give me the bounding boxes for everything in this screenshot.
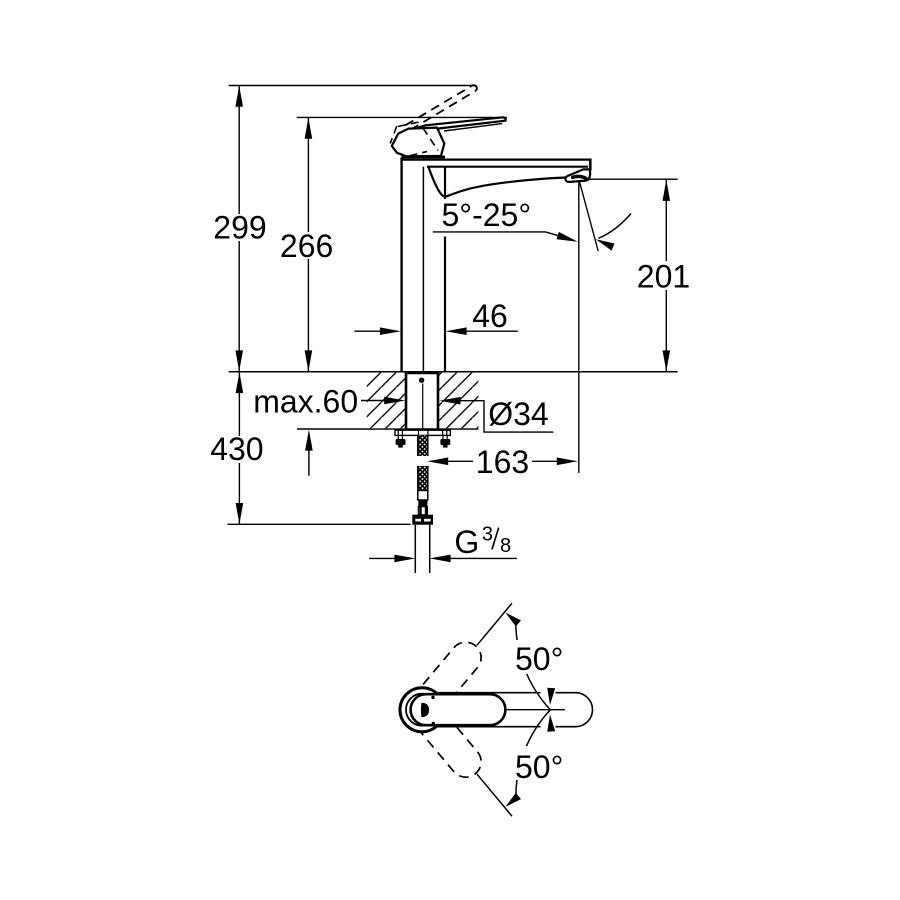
handle lever underside shadow line [444, 124, 502, 131]
spout plan outline [437, 693, 593, 727]
aerator [565, 169, 590, 182]
spout bar right end [589, 159, 592, 171]
dimension line 266 [277, 118, 337, 372]
svg-text:430: 430 [210, 431, 263, 467]
rotated handle position dashed (up 50°) [403, 636, 488, 728]
svg-text:266: 266 [280, 228, 333, 264]
spray angle arc arrow [596, 214, 631, 251]
svg-text:163: 163 [476, 444, 529, 480]
dimension 46 [354, 298, 517, 335]
label G 3/8 with arrows [369, 523, 517, 562]
mounting plate [395, 430, 450, 435]
pivot outer circle [400, 688, 444, 732]
hose centerline [422, 384, 424, 436]
max.60 up arrow below deck [305, 430, 313, 476]
50° dimension arc upper [505, 613, 569, 710]
dimension line 201 [636, 180, 694, 372]
pivot inner circle [406, 694, 438, 726]
spout top bar [402, 159, 591, 161]
flexible hose braided lower segment [418, 466, 428, 491]
handle body dashed details [390, 122, 438, 156]
spout underside curve [429, 167, 566, 197]
svg-text:G: G [454, 524, 479, 560]
dimension 163 [427, 444, 578, 480]
hose ferrule [418, 500, 427, 507]
extension line for 266 (top of lowered lever) [297, 116, 507, 118]
svg-text:50°: 50° [515, 641, 563, 677]
body base thick line at deck [405, 371, 440, 374]
countertop deck bottom line [297, 428, 479, 430]
handle plan (solid) [411, 694, 506, 725]
svg-text:Ø34: Ø34 [488, 396, 548, 432]
deck hatching left of shank [367, 373, 406, 429]
label 5°-25° with leader arrow [433, 197, 578, 242]
supply pipe [415, 525, 429, 573]
hose crimp sleeve [418, 491, 428, 501]
handle lever (solid, horizontal) [410, 117, 506, 130]
shank through deck left edge [405, 372, 408, 430]
deck hatching right of shank [438, 373, 478, 429]
extension line for 299 (top of raised lever) [229, 85, 476, 87]
dimension line 299 [210, 86, 270, 372]
connection nut G3/8 [412, 515, 433, 525]
handle lever raised (dashed) [406, 85, 477, 130]
extension line bottom of 430 [228, 523, 411, 525]
faucet body column middle line [422, 167, 424, 372]
svg-text:299: 299 [213, 210, 266, 246]
right mounting stud and nut [440, 435, 450, 447]
svg-text:3: 3 [482, 523, 493, 545]
water stream vertical extension line [578, 181, 580, 473]
faucet body top cap [402, 156, 446, 159]
reference line top of 201 (at aerator) [586, 178, 678, 180]
svg-text:8: 8 [500, 535, 511, 557]
label Ø34 with leader [440, 396, 554, 432]
svg-text:50°: 50° [515, 749, 563, 785]
handle body [392, 128, 445, 157]
svg-text:5°-25°: 5°-25° [442, 197, 532, 233]
plan centerline [507, 709, 565, 711]
flexible hose braided upper segment [418, 435, 428, 456]
left mounting stud and nut [396, 435, 406, 447]
50° dimension arc lower [505, 710, 569, 807]
svg-text:46: 46 [472, 298, 508, 334]
shank through deck right edge [437, 372, 440, 430]
countertop deck top line [229, 371, 678, 373]
50° reference line lower [477, 774, 512, 816]
50° reference line upper [477, 603, 512, 645]
faucet body column left edge [400, 158, 402, 372]
rotated handle position dashed (down 50°) [403, 691, 488, 783]
set screw dot [419, 378, 424, 383]
svg-text:201: 201 [637, 258, 690, 294]
water stream slanted line [579, 181, 598, 251]
svg-text:max.60: max.60 [253, 383, 358, 419]
hose rib section [418, 507, 427, 515]
dimension line 430 [207, 372, 267, 524]
faucet body column right edge (broken by 5°-25° label) [444, 167, 446, 199]
label max.60 with leader arrow [253, 383, 405, 419]
handle plan dots [431, 696, 434, 699]
handle plan black blob [421, 703, 429, 717]
